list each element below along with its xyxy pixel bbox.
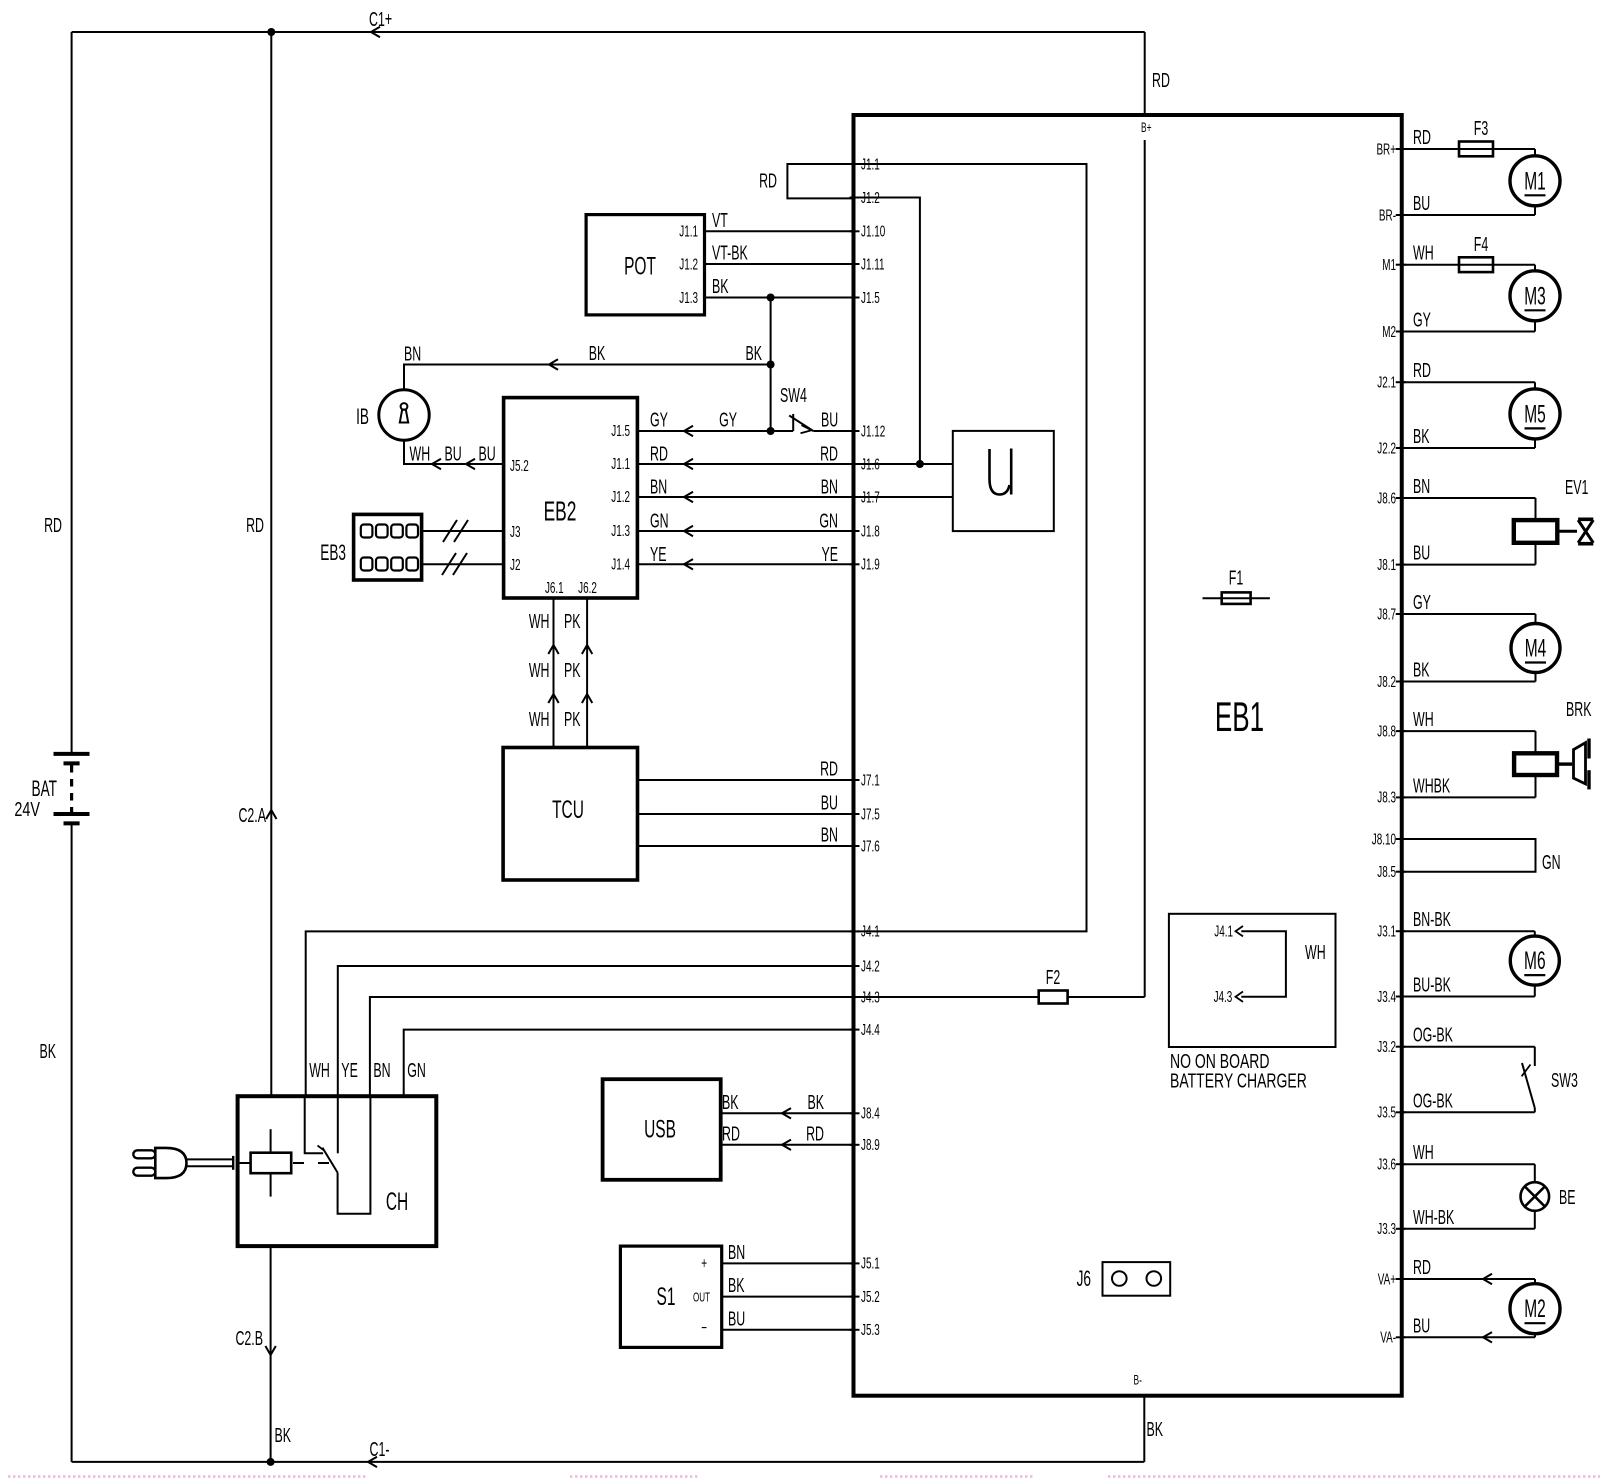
svg-text:M2: M2 xyxy=(1524,1296,1546,1324)
svg-text:BK: BK xyxy=(746,342,763,365)
label OG-BK (J3.2) xyxy=(1413,1024,1453,1047)
switch SW3 xyxy=(1402,1047,1535,1113)
svg-text:WH: WH xyxy=(1413,1141,1434,1164)
svg-text:J5.2: J5.2 xyxy=(510,457,529,475)
wire: B+ drop from top bus into EB1 xyxy=(1144,32,1146,115)
pin J3 (EB2) xyxy=(510,523,520,541)
valve EV1 xyxy=(1402,498,1594,565)
label RD (BR+) xyxy=(1413,126,1431,149)
labels WH PK (row near y=726) xyxy=(529,708,581,731)
label WH-BK (J3.3) xyxy=(1413,1206,1454,1229)
pin + (S1) xyxy=(701,1254,707,1272)
svg-text:M2: M2 xyxy=(1382,322,1396,340)
svg-text:B+: B+ xyxy=(1141,121,1151,135)
label RD (jumper) xyxy=(759,169,777,192)
svg-text:J1.1: J1.1 xyxy=(611,455,630,473)
svg-text:J3.4: J3.4 xyxy=(1377,987,1396,1005)
label F4 xyxy=(1474,233,1488,256)
fuse F1 xyxy=(1203,592,1270,604)
svg-text:BK: BK xyxy=(275,1424,292,1447)
svg-text:J8.4: J8.4 xyxy=(861,1104,880,1122)
svg-text:J5.3: J5.3 xyxy=(861,1321,880,1339)
wire loop GN: J8.10 to J8.5 xyxy=(1402,839,1536,872)
svg-text:EV1: EV1 xyxy=(1565,476,1588,499)
label RD (VA+) xyxy=(1413,1256,1431,1279)
label BU-BK (J3.4) xyxy=(1413,973,1451,996)
junction dot BK drop / SW4 net xyxy=(767,427,775,435)
label BK above C1- bus xyxy=(275,1424,292,1447)
svg-text:J7.6: J7.6 xyxy=(861,837,880,855)
pin J5.2 (EB1 left) xyxy=(850,1287,880,1305)
svg-text:M3: M3 xyxy=(1524,283,1546,311)
wire: bottom horizontal C1- bus xyxy=(72,1461,1145,1463)
svg-text:J8.3: J8.3 xyxy=(1377,788,1396,806)
pin J3.2 (EB1 right) xyxy=(1377,1038,1405,1056)
note text NO ON BOARD BATTERY CHARGER xyxy=(1170,1049,1307,1092)
note box: no on board battery charger xyxy=(1169,914,1336,1047)
label EB2 xyxy=(544,495,577,526)
label BRK xyxy=(1566,698,1591,721)
pin J3.6 (EB1 right) xyxy=(1377,1155,1405,1173)
wire: internal link J1.1 to J4.1 xyxy=(857,164,1087,931)
svg-text:RD: RD xyxy=(806,1122,824,1145)
svg-text:J1.11: J1.11 xyxy=(861,255,885,273)
pin J1.10 (EB1 left) xyxy=(850,222,886,240)
label J6 xyxy=(1077,1266,1091,1291)
wire: EB3 to EB2 J3 (bus) xyxy=(422,520,504,542)
svg-text:WH: WH xyxy=(309,1059,330,1082)
svg-text:BN: BN xyxy=(728,1241,745,1264)
switch SW4 xyxy=(771,414,854,433)
wire BU: S1 - to EB1 J5.3 xyxy=(722,1307,854,1330)
pin J1.5 (EB1 left) xyxy=(850,288,880,306)
svg-text:GY: GY xyxy=(1413,591,1431,614)
svg-text:BN: BN xyxy=(373,1059,390,1082)
svg-text:J7.5: J7.5 xyxy=(861,805,880,823)
svg-text:J8.2: J8.2 xyxy=(1377,672,1396,690)
svg-text:J1.9: J1.9 xyxy=(861,555,880,573)
label YE (charger bus) xyxy=(341,1059,358,1082)
wire BN: S1 + to EB1 J5.1 xyxy=(722,1241,854,1264)
svg-text:RD: RD xyxy=(820,442,838,465)
label USB xyxy=(644,1116,676,1144)
node B+ label xyxy=(1141,121,1151,135)
svg-text:SW3: SW3 xyxy=(1551,1069,1578,1092)
svg-text:GN: GN xyxy=(819,509,838,532)
wire WH: EB1 J4 to charger CH xyxy=(306,931,854,1096)
lamp BE xyxy=(1402,1164,1549,1229)
svg-text:BN: BN xyxy=(404,342,421,365)
svg-text:J3: J3 xyxy=(510,523,520,541)
wire GN: EB1 J4 to charger CH xyxy=(404,1030,854,1097)
svg-text:J3.1: J3.1 xyxy=(1377,922,1396,940)
label 24V xyxy=(14,798,40,821)
svg-text:TCU: TCU xyxy=(552,796,584,824)
svg-text:M4: M4 xyxy=(1525,635,1547,663)
pin J1.1 (EB1 left) xyxy=(850,155,880,173)
pin J5.2 (EB2) xyxy=(510,457,529,475)
pin J2.2 (EB1 right) xyxy=(1377,439,1405,457)
svg-text:BK: BK xyxy=(1413,658,1430,681)
svg-text:OG-BK: OG-BK xyxy=(1413,1089,1453,1112)
svg-text:J8.6: J8.6 xyxy=(1377,489,1396,507)
svg-text:−: − xyxy=(701,1319,707,1337)
wire: J4.3 through fuse F2 to B+ bus xyxy=(857,996,1145,998)
svg-text:BK: BK xyxy=(1147,1418,1164,1441)
svg-text:YE: YE xyxy=(650,543,667,566)
label RD on outer left wire xyxy=(44,514,62,537)
node C1- label and arrow xyxy=(368,1438,389,1467)
pin J2.1 (EB1 right) xyxy=(1377,373,1405,391)
svg-text:YE: YE xyxy=(821,543,838,566)
svg-text:POT: POT xyxy=(624,253,656,281)
svg-text:BATTERY CHARGER: BATTERY CHARGER xyxy=(1170,1069,1307,1092)
svg-text:J7.1: J7.1 xyxy=(861,771,880,789)
svg-text:J1.12: J1.12 xyxy=(861,422,885,440)
svg-text:J3.5: J3.5 xyxy=(1377,1103,1396,1121)
svg-text:J4.4: J4.4 xyxy=(861,1020,880,1038)
svg-text:WH: WH xyxy=(529,708,550,731)
motor M2 xyxy=(1402,1274,1560,1343)
pin J1.3 (POT) xyxy=(679,288,698,306)
svg-text:BK: BK xyxy=(728,1274,745,1297)
label BU (VA-) xyxy=(1413,1314,1430,1337)
svg-text:RD: RD xyxy=(1413,1256,1431,1279)
svg-text:B-: B- xyxy=(1134,1374,1143,1388)
svg-text:J8.10: J8.10 xyxy=(1372,830,1396,848)
svg-text:J5.1: J5.1 xyxy=(861,1254,880,1272)
svg-text:24V: 24V xyxy=(14,798,40,821)
pin J4.4 (EB1 left) xyxy=(850,1020,880,1038)
pin J7.5 (EB1 left) xyxy=(850,805,880,823)
ignition switch IB xyxy=(379,390,429,440)
pin J5.3 (EB1 left) xyxy=(850,1321,880,1339)
pin J8.7 (EB1 right) xyxy=(1377,605,1405,623)
pin J7.6 (EB1 left) xyxy=(850,837,880,855)
svg-text:GN: GN xyxy=(1542,851,1561,874)
motor M6 xyxy=(1402,931,1560,996)
pin J6.2 (EB2) xyxy=(578,579,597,597)
svg-text:BR+: BR+ xyxy=(1376,140,1396,158)
label WH (IB wire) xyxy=(410,442,431,465)
svg-text:C1-: C1- xyxy=(370,1438,390,1461)
label EB3 xyxy=(320,540,346,565)
wire: left outer vertical (battery negative, BK) xyxy=(71,32,73,1462)
svg-text:M5: M5 xyxy=(1524,401,1546,429)
label RD on riser xyxy=(246,514,264,537)
svg-text:EB2: EB2 xyxy=(544,495,577,526)
pin BR- (EB1 right) xyxy=(1379,206,1406,224)
svg-text:BK: BK xyxy=(39,1040,56,1063)
svg-text:M1: M1 xyxy=(1382,256,1396,274)
svg-text:J1.2: J1.2 xyxy=(611,488,630,506)
svg-text:BR-: BR- xyxy=(1379,206,1396,224)
svg-text:RD: RD xyxy=(246,514,264,537)
svg-text:BU: BU xyxy=(821,791,838,814)
wire PK: EB2 J6.2 to TCU xyxy=(582,598,592,748)
fuse F4 xyxy=(1402,257,1535,272)
label F1 xyxy=(1229,566,1243,589)
wire BK: S1 OUT to EB1 J5.2 xyxy=(722,1274,854,1297)
pin J8.6 (EB1 right) xyxy=(1377,489,1405,507)
svg-text:BE: BE xyxy=(1559,1186,1576,1209)
label BU (J8.1) xyxy=(1413,542,1430,565)
pin J1.12 (EB1 left) xyxy=(850,422,886,440)
label BE xyxy=(1559,1186,1576,1209)
svg-text:WH-BK: WH-BK xyxy=(1413,1206,1454,1229)
svg-text:OG-BK: OG-BK xyxy=(1413,1024,1453,1047)
svg-text:GN: GN xyxy=(650,509,669,532)
labels WH PK (row near y=677) xyxy=(529,659,581,682)
wire GN: EB2 to EB1 (J1.3→J1.8) xyxy=(637,509,853,536)
wire RD: EB2 to EB1 (J1.1→J1.6) xyxy=(637,442,853,469)
svg-text:GY: GY xyxy=(1413,308,1431,331)
charger CH box xyxy=(238,1096,437,1246)
svg-text:J6: J6 xyxy=(1077,1266,1091,1291)
svg-text:BK: BK xyxy=(589,342,606,365)
label GY (M2 pin) xyxy=(1413,308,1431,331)
connector EB3 contacts xyxy=(361,525,418,571)
svg-text:VT: VT xyxy=(712,209,728,232)
svg-text:VT-BK: VT-BK xyxy=(712,241,748,264)
junction dot J1.2 link / J1.6 wire xyxy=(916,460,924,468)
wire: EB3 to EB2 J2 (bus) xyxy=(422,553,504,575)
pin J1.4 (EB2) xyxy=(611,555,630,573)
svg-text:BK: BK xyxy=(722,1091,739,1114)
node C2.A label with up arrow xyxy=(238,804,276,827)
wire BN: EB1 J4 to charger CH xyxy=(370,997,854,1096)
junction dot BK wire / BK drop xyxy=(767,294,775,302)
label BK (near drop) xyxy=(746,342,763,365)
label BU (IB wire mid) xyxy=(445,442,462,465)
label BK on B- drop xyxy=(1147,1418,1164,1441)
pin VA- (EB1 right) xyxy=(1380,1328,1406,1346)
node C2.B label with down arrow xyxy=(235,1327,275,1355)
svg-text:J4.3: J4.3 xyxy=(1214,988,1233,1006)
label BN (J8.6) xyxy=(1413,475,1430,498)
label J4.1 (note) xyxy=(1214,922,1233,940)
battery BAT 24V xyxy=(54,754,90,824)
svg-text:BK: BK xyxy=(807,1091,824,1114)
pin J8.5 (EB1 right) xyxy=(1377,863,1405,881)
svg-text:J8.8: J8.8 xyxy=(1377,722,1396,740)
svg-text:WHBK: WHBK xyxy=(1413,774,1450,797)
label BK on outer left wire xyxy=(39,1040,56,1063)
svg-text:J2.2: J2.2 xyxy=(1377,439,1396,457)
pin - (S1) xyxy=(701,1319,707,1337)
svg-text:CH: CH xyxy=(386,1188,408,1216)
wire GY: EB2 J1.5 to SW4 xyxy=(637,426,770,436)
pin J1.1 (EB2) xyxy=(611,455,630,473)
scan artifact dotted line xyxy=(8,1475,1600,1478)
wire BK: POT J1.3 to EB1 J1.5 xyxy=(705,275,854,298)
wire: top horizontal C1+ bus (battery + to EB1 B+) xyxy=(72,31,1145,33)
svg-text:RD: RD xyxy=(722,1122,740,1145)
svg-text:J5.2: J5.2 xyxy=(861,1287,880,1305)
pin J7.1 (EB1 left) xyxy=(850,771,880,789)
wire BN: TCU J7.6 xyxy=(638,823,854,846)
svg-text:WH: WH xyxy=(1413,708,1434,731)
svg-text:J1.10: J1.10 xyxy=(861,222,885,240)
motor M1 xyxy=(1402,149,1560,215)
wire: J1.7 to U meter xyxy=(857,496,953,498)
label BU (BR-) xyxy=(1413,192,1430,215)
pin J8.1 (EB1 right) xyxy=(1377,555,1405,573)
pin J1.8 (EB1 left) xyxy=(850,522,880,540)
junction dot CH lead / bottom bus xyxy=(267,1458,275,1466)
label BU (near EB2) xyxy=(479,442,496,465)
svg-text:M6: M6 xyxy=(1524,947,1546,975)
pin J3.5 (EB1 right) xyxy=(1377,1103,1405,1121)
label CH xyxy=(386,1188,408,1216)
svg-text:J1.5: J1.5 xyxy=(611,422,630,440)
svg-text:VA+: VA+ xyxy=(1378,1270,1396,1288)
wire YE: EB2 to EB1 (J1.4→J1.9) xyxy=(637,543,853,570)
label F3 xyxy=(1474,117,1488,140)
pin J1.5 (EB2) xyxy=(611,422,630,440)
svg-text:C2.A: C2.A xyxy=(238,804,266,827)
wire VT: POT J1.1 to EB1 J1.10 xyxy=(705,209,854,232)
svg-text:BU: BU xyxy=(728,1307,745,1330)
svg-text:J8.9: J8.9 xyxy=(861,1136,880,1154)
wire BK: USB to EB1 J8.4 xyxy=(721,1091,854,1119)
label RD on B+ drop xyxy=(1152,69,1170,92)
svg-text:J1.2: J1.2 xyxy=(679,255,698,273)
label J4.3 (note) xyxy=(1214,988,1233,1006)
wire BN: EB2 to EB1 (J1.2→J1.7) xyxy=(637,475,853,502)
label BK (mid wire) xyxy=(589,342,606,365)
svg-text:BN: BN xyxy=(1413,475,1430,498)
svg-text:RD: RD xyxy=(1413,359,1431,382)
pin OUT (S1) xyxy=(693,1290,710,1304)
label BK (J2.2) xyxy=(1413,425,1430,448)
svg-text:YE: YE xyxy=(341,1059,358,1082)
connector J6 xyxy=(1103,1262,1171,1296)
svg-text:BK: BK xyxy=(1413,425,1430,448)
charger breaker fuse element xyxy=(238,1129,330,1196)
fuse F2 xyxy=(1039,991,1068,1004)
svg-text:WH: WH xyxy=(410,442,431,465)
svg-text:PK: PK xyxy=(564,659,581,682)
label WH (note) xyxy=(1305,941,1326,964)
svg-text:BRK: BRK xyxy=(1566,698,1591,721)
svg-text:J2: J2 xyxy=(510,556,520,574)
label EV1 xyxy=(1565,476,1588,499)
svg-text:C1+: C1+ xyxy=(369,8,392,31)
svg-text:J6.1: J6.1 xyxy=(545,579,564,597)
buzzer BRK xyxy=(1402,731,1589,797)
svg-text:WH: WH xyxy=(529,659,550,682)
svg-text:J1.4: J1.4 xyxy=(611,555,630,573)
svg-text:BU: BU xyxy=(1413,1314,1430,1337)
svg-text:RD: RD xyxy=(650,442,668,465)
motor M4 xyxy=(1402,614,1560,682)
pin J1.1 (POT) xyxy=(679,222,698,240)
svg-text:VA-: VA- xyxy=(1380,1328,1396,1346)
pin J8.3 (EB1 right) xyxy=(1377,788,1405,806)
pin J1.2 (POT) xyxy=(679,255,698,273)
label BN (charger bus) xyxy=(373,1059,390,1082)
junction dot top wire / RD riser xyxy=(267,28,275,36)
label GY (near EB2) xyxy=(650,408,668,431)
junction dot BK drop / IB branch xyxy=(767,361,775,369)
svg-text:F4: F4 xyxy=(1474,233,1488,256)
pin J1.6 (EB1 left) xyxy=(850,455,880,473)
pin J4.3 (EB1 left) xyxy=(850,988,880,1006)
svg-text:C2.B: C2.B xyxy=(235,1327,263,1350)
pin J6.1 (EB2) xyxy=(545,579,564,597)
label WH (M1 pin) xyxy=(1413,242,1434,265)
svg-text:J1.3: J1.3 xyxy=(611,522,630,540)
svg-text:J3.6: J3.6 xyxy=(1377,1155,1396,1173)
pin J3.3 (EB1 right) xyxy=(1377,1220,1405,1238)
label WHBK (J8.3) xyxy=(1413,774,1450,797)
motor M3 xyxy=(1402,265,1560,332)
svg-text:J2.1: J2.1 xyxy=(1377,373,1396,391)
pin J1.9 (EB1 left) xyxy=(850,555,880,573)
label BAT xyxy=(31,776,57,801)
label EB1 xyxy=(1215,694,1264,741)
svg-text:BU: BU xyxy=(1413,542,1430,565)
svg-text:S1: S1 xyxy=(657,1283,676,1311)
label WH (J8.8) xyxy=(1413,708,1434,731)
wire: B- drop from EB1 to bottom bus xyxy=(1143,1396,1145,1462)
label WH (J3.6) xyxy=(1413,1141,1434,1164)
svg-text:BU: BU xyxy=(479,442,496,465)
svg-text:J6.2: J6.2 xyxy=(578,579,597,597)
pin M2 (EB1 right) xyxy=(1382,322,1406,340)
module USB box xyxy=(603,1079,721,1180)
svg-text:RD: RD xyxy=(820,757,838,780)
svg-text:RD: RD xyxy=(44,514,62,537)
label POT xyxy=(624,253,656,281)
label F2 xyxy=(1046,966,1060,989)
wire: IB bottom to EB2 J5.2 (WH/BU) xyxy=(404,440,504,469)
label RD (J2.1) xyxy=(1413,359,1431,382)
svg-text:GY: GY xyxy=(650,408,668,431)
svg-text:J3.3: J3.3 xyxy=(1377,1220,1396,1238)
pin J2 (EB2) xyxy=(510,556,520,574)
motor M5 xyxy=(1402,382,1560,448)
wire RD: TCU J7.1 xyxy=(638,757,854,780)
wire WH: EB2 J6.1 to TCU xyxy=(548,598,558,748)
label BN (IB wire) xyxy=(404,342,421,365)
pin J4.2 (EB1 left) xyxy=(850,957,880,975)
labels WH PK (row near y=628) xyxy=(529,610,581,633)
svg-text:M1: M1 xyxy=(1524,168,1546,196)
svg-text:PK: PK xyxy=(564,708,581,731)
wire: internal link J1.2 down to J1.6 net xyxy=(857,198,920,465)
label S1 xyxy=(657,1283,676,1311)
label BU (SW4 wire) xyxy=(821,408,838,431)
svg-text:J8.5: J8.5 xyxy=(1377,863,1396,881)
svg-text:+: + xyxy=(701,1254,707,1272)
wire: RD riser from top bus down to charger CH xyxy=(270,32,272,1096)
label OG-BK (J3.5) xyxy=(1413,1089,1453,1112)
pin J3.4 (EB1 right) xyxy=(1377,987,1405,1005)
svg-text:WH: WH xyxy=(1413,242,1434,265)
label SW3 xyxy=(1551,1069,1578,1092)
label TCU xyxy=(552,796,584,824)
wire: B+ internal bus xyxy=(1144,140,1146,997)
svg-text:J4.1: J4.1 xyxy=(1214,922,1233,940)
pin J8.4 (EB1 left) xyxy=(850,1104,880,1122)
wire: RD jumper loop J1.1 to J1.2 xyxy=(787,164,853,198)
svg-text:J1.5: J1.5 xyxy=(861,288,880,306)
label BN-BK (J3.1) xyxy=(1413,908,1451,931)
svg-text:BN: BN xyxy=(821,823,838,846)
label GY (mid) xyxy=(719,408,737,431)
